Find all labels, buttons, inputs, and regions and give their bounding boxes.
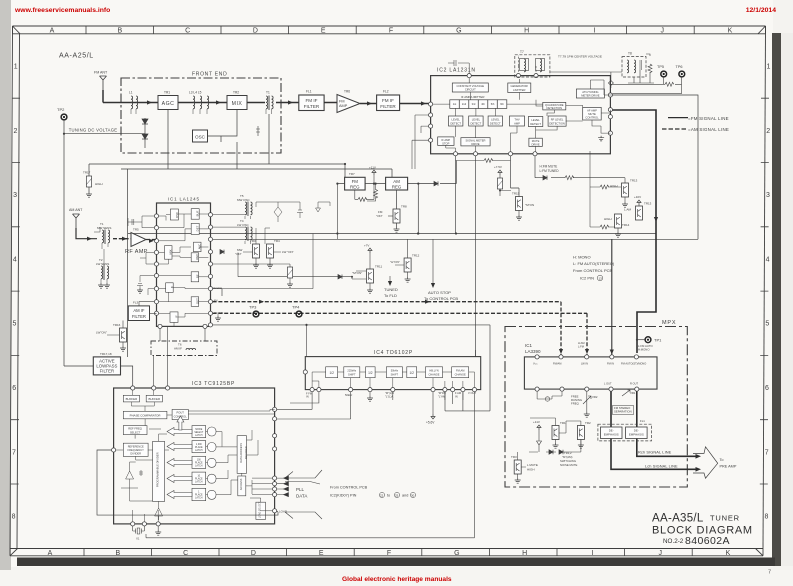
IC4 body — [305, 357, 480, 390]
svg-text:FM: FM — [339, 100, 344, 104]
if amp 6-stage row — [450, 100, 507, 109]
svg-text:2: 2 — [766, 128, 770, 135]
svg-text:PLACE: PLACE — [195, 494, 203, 497]
svg-text:REFERENCE: REFERENCE — [128, 445, 144, 449]
wire loop around left-bottom — [97, 450, 278, 515]
svg-text:AGC: AGC — [162, 101, 175, 107]
IC1 right pins — [208, 213, 212, 327]
svg-text:LEVEL: LEVEL — [531, 118, 540, 122]
IC3 bottom pins — [131, 522, 161, 526]
IC1 inner block alc — [194, 242, 202, 252]
transistor TR3 — [235, 239, 260, 268]
svg-text:L:FM TUNED: L:FM TUNED — [540, 169, 560, 173]
svg-text:TR6: TR6 — [344, 90, 350, 94]
wire T7-T8 rail to quadrature — [610, 72, 612, 88]
svg-text:HIGH: HIGH — [527, 468, 535, 472]
svg-text:225kHz: 225kHz — [347, 369, 356, 373]
svg-text:I: I — [593, 28, 595, 35]
svg-text:TUNED: TUNED — [384, 287, 398, 292]
auto stop label — [424, 239, 458, 301]
svg-text:DET: DET — [196, 225, 200, 231]
svg-text:H:AM: H:AM — [578, 341, 584, 345]
svg-text:TP2: TP2 — [57, 107, 65, 112]
svg-text:ALC: ALC — [198, 244, 202, 249]
svg-text:REG: REG — [392, 184, 402, 189]
IC4 1/2 block b — [366, 367, 376, 378]
svg-text:T7,T8 1PM CENTER VOLTAGE: T7,T8 1PM CENTER VOLTAGE — [558, 55, 602, 59]
coil L1 — [129, 91, 138, 115]
svg-text:RF: RF — [196, 274, 200, 278]
svg-text:1/2: 1/2 — [368, 371, 373, 375]
svg-text:LEVEL: LEVEL — [491, 118, 500, 122]
svg-text:IC2(KID07) PIN: IC2(KID07) PIN — [330, 494, 357, 498]
junction dots — [344, 163, 457, 235]
right scan shadow bar — [772, 33, 781, 566]
svg-text:FM ANT: FM ANT — [94, 71, 108, 75]
right grid numbers — [764, 64, 770, 521]
T6 AM IF dashed box — [151, 326, 217, 355]
wire IC4 drops — [146, 392, 475, 538]
LA3390 bottom pins — [535, 387, 639, 391]
svg-text:"ON": "ON" — [376, 214, 383, 218]
IC1 inner block if2 — [170, 312, 179, 323]
ref freq select block — [123, 426, 147, 435]
MPX dash-dot box — [505, 327, 687, 488]
svg-text:TR17,18: TR17,18 — [100, 352, 112, 356]
svg-text:R OUT: R OUT — [630, 382, 638, 386]
svg-text:50kHz: 50kHz — [345, 393, 353, 397]
transistor TR4 — [267, 239, 294, 268]
svg-text:DET: DET — [196, 298, 200, 304]
wire +B bus 164 — [89, 164, 345, 177]
transistor TR2 mute — [559, 421, 591, 448]
svg-text:F: F — [387, 550, 391, 557]
svg-text:PRE AMP: PRE AMP — [720, 465, 737, 469]
H:FM MUTE note — [540, 165, 560, 174]
TP4 test point — [292, 305, 302, 317]
svg-text:5: 5 — [765, 321, 769, 328]
svg-text:CONSTANT VOLTAGE: CONSTANT VOLTAGE — [457, 84, 485, 88]
wire rf amp out dashed — [146, 239, 157, 243]
svg-text:1/2: 1/2 — [409, 371, 414, 375]
svg-text:FM,AM: FM,AM — [456, 369, 464, 373]
To PRE AMP arrow — [693, 447, 737, 478]
svg-text:REG: REG — [350, 184, 360, 189]
wire thick FM line to MPX — [613, 110, 657, 353]
wire regs — [337, 161, 456, 234]
svg-text:FL1: FL1 — [306, 90, 312, 94]
svg-text:+11V: +11V — [369, 166, 376, 170]
svg-text:TR1: TR1 — [560, 421, 566, 425]
svg-text:2: 2 — [13, 128, 17, 135]
wire pll pin stubs — [277, 476, 289, 497]
latch rounded pairs — [208, 427, 217, 499]
PLL data arrow upper — [285, 470, 322, 484]
wire bus 239 — [211, 238, 699, 240]
svg-text:SEPARATION: SEPARATION — [614, 410, 632, 414]
svg-text:LW"ON": LW"ON" — [96, 331, 107, 335]
resistor on TP rail — [665, 82, 674, 86]
wire into IC2 — [400, 103, 429, 105]
coils L3 L4 L5 — [189, 91, 209, 115]
wire agc/mix down to bus — [168, 110, 269, 170]
wire filter to pins — [139, 302, 157, 314]
IC2 top pins — [467, 74, 538, 78]
TP1 test point — [636, 337, 662, 343]
svg-text:LEVEL: LEVEL — [452, 118, 461, 122]
wire am dashed out pin — [213, 300, 564, 355]
svg-text:LATCH: LATCH — [195, 480, 203, 483]
+11V muting feed — [529, 420, 581, 454]
svg-text:DETECT: DETECT — [530, 122, 541, 126]
level detect block 3 — [488, 116, 502, 126]
svg-text:HIGH: HIGH — [604, 217, 612, 221]
TP5 test point — [657, 65, 667, 77]
cap T3? stub — [256, 126, 260, 136]
svg-text:X1: X1 — [136, 537, 140, 541]
svg-text:PLACE: PLACE — [195, 446, 203, 449]
100 place latch — [192, 456, 206, 468]
svg-text:AMP: AMP — [339, 104, 348, 108]
svg-text:G: G — [454, 550, 459, 557]
svg-text:PLACE: PLACE — [195, 462, 203, 465]
IC4 1/2 block c — [407, 367, 417, 378]
svg-text:5: 5 — [13, 321, 17, 328]
de-emphasis block R — [626, 427, 648, 439]
IC1 inner block agc — [191, 253, 199, 262]
svg-text:FILTER: FILTER — [380, 104, 396, 109]
svg-text:L1: L1 — [129, 91, 133, 95]
wire pin1 stub — [537, 391, 562, 399]
wire quadrature coil link dashed — [517, 55, 519, 66]
drawing frame: left band — [10, 26, 20, 549]
transistor TR3 mute — [511, 452, 538, 483]
ground under IC4 — [367, 392, 373, 402]
tuned to fld label — [384, 276, 398, 298]
svg-text:IF AMP: IF AMP — [441, 138, 450, 142]
svg-text:OSC: OSC — [195, 135, 206, 140]
svg-text:"ON": "ON" — [235, 252, 242, 256]
address latch block — [238, 476, 246, 496]
junction at IC4 top feed — [305, 324, 307, 326]
IC4 HB LYN change block — [426, 367, 443, 378]
svg-text:SELECT: SELECT — [194, 432, 204, 434]
svg-text:TR12: TR12 — [412, 254, 420, 258]
wire FM ant down — [102, 90, 104, 103]
drawing frame: top band — [13, 26, 766, 34]
svg-text:TR7: TR7 — [349, 172, 355, 176]
svg-text:MIX: MIX — [169, 249, 173, 254]
svg-text:LW "ON": LW "ON" — [282, 250, 294, 254]
svg-text:LATCH: LATCH — [195, 497, 203, 500]
svg-text:13: 13 — [599, 277, 603, 281]
svg-text:CIRCUIT: CIRCUIT — [465, 88, 476, 92]
svg-text:IF: IF — [170, 285, 174, 288]
wire pin264 right resistors — [213, 264, 293, 287]
IC2 right pins — [608, 93, 612, 135]
svg-text:IF VCC: IF VCC — [214, 286, 223, 290]
resistor under FM REG — [355, 184, 374, 202]
svg-text:NOISE MUTE: NOISE MUTE — [560, 463, 578, 467]
svg-text:L MUTE: L MUTE — [527, 463, 538, 467]
IC1 inner block det — [191, 223, 199, 234]
wire IC1 to IC3 pin — [167, 326, 169, 386]
wire reg left vertical — [336, 184, 338, 240]
svg-text:1st: 1st — [453, 102, 457, 106]
IC3 top pins — [131, 386, 170, 390]
svg-text:H: H — [524, 28, 529, 35]
svg-text:L: FM AUTO(STEREO): L: FM AUTO(STEREO) — [573, 261, 615, 266]
reference frequency divider block — [123, 443, 148, 456]
wire tuning dc — [64, 120, 145, 366]
svg-text:TR15: TR15 — [512, 192, 520, 196]
svg-text:HB,LYN: HB,LYN — [429, 369, 438, 373]
svg-text:FM/AM: FM/AM — [553, 362, 561, 366]
+11V supply — [369, 166, 376, 184]
svg-text:+7.5V: +7.5V — [494, 165, 502, 169]
svg-text:"M"ON: "M"ON — [525, 203, 534, 207]
AM REG block — [386, 177, 408, 190]
svg-text:TR3: TR3 — [511, 455, 517, 459]
svg-text:LOAD SELECT: LOAD SELECT — [259, 501, 262, 518]
svg-text:Global electronic heritage man: Global electronic heritage manuals — [342, 576, 452, 583]
pout control block — [172, 409, 188, 419]
svg-text:FM: FM — [352, 179, 359, 184]
svg-text:H:MONO: H:MONO — [638, 348, 650, 352]
FL1 de-emphasis dashed box — [598, 419, 652, 441]
svg-text:IN: IN — [455, 395, 458, 399]
svg-text:DRIVE: DRIVE — [471, 142, 479, 146]
wire pin276 right — [213, 234, 313, 289]
pin note above — [578, 341, 584, 349]
transistor TR14 — [604, 214, 630, 237]
svg-text:H:FM MUTE: H:FM MUTE — [540, 165, 558, 169]
svg-text:TUNER: TUNER — [710, 514, 740, 523]
svg-text:L OUT: L OUT — [604, 382, 612, 386]
svg-text:RF LEVEL: RF LEVEL — [551, 118, 564, 122]
svg-text:CONTROL: CONTROL — [585, 116, 599, 120]
svg-text:C: C — [183, 550, 188, 557]
svg-text:SHIFT: SHIFT — [391, 372, 399, 376]
wire FM IN drop — [610, 239, 614, 355]
svg-text:AUTO STOP: AUTO STOP — [428, 290, 451, 295]
svg-text:IN: IN — [306, 395, 309, 399]
svg-text:SHIFT: SHIFT — [348, 372, 356, 376]
PLL data arrow lower — [285, 512, 322, 519]
wire bus 233 — [128, 233, 656, 235]
programmable divider block — [153, 441, 165, 501]
svg-text:ADDRESS: ADDRESS — [240, 478, 243, 490]
TP2 test point — [57, 107, 67, 120]
free runing freq — [571, 391, 598, 417]
svg-text:T1: T1 — [266, 91, 270, 95]
svg-text:AGC: AGC — [195, 254, 199, 260]
FM AMP triangle TR6 — [337, 90, 360, 113]
svg-text:TR13: TR13 — [630, 179, 638, 183]
IC4 225kHz shift block — [344, 367, 360, 378]
svg-text:To: To — [720, 458, 724, 462]
wire osc to mix — [208, 110, 238, 143]
T4 LW OSC — [213, 219, 253, 244]
svg-text:VR1: VR1 — [630, 391, 636, 395]
wire IC2 to IC4 drop — [475, 350, 477, 357]
drawing frame: right band — [763, 26, 766, 549]
TR1,2 note — [560, 451, 578, 467]
svg-text:AA-A25/L: AA-A25/L — [59, 53, 94, 60]
svg-text:TR4: TR4 — [274, 239, 280, 243]
IC1 bottom corner pins — [158, 324, 207, 328]
svg-text:TR13: TR13 — [644, 202, 652, 206]
svg-text:1/2: 1/2 — [329, 371, 334, 375]
svg-text:1: 1 — [14, 64, 18, 71]
ground at IC1 left pin network — [137, 288, 143, 293]
PLL DATA label — [296, 487, 307, 499]
wire dashed TP3 TP4 line — [213, 313, 590, 355]
svg-text:=AM SIGNAL LINE: =AM SIGNAL LINE — [688, 127, 729, 132]
svg-text:C: C — [185, 28, 190, 35]
transistor TR15 — [512, 192, 534, 221]
svg-text:+7V: +7V — [364, 244, 369, 248]
svg-text:FL2: FL2 — [383, 90, 389, 94]
IC2 bottom pins — [453, 152, 537, 156]
svg-text:FM IF: FM IF — [382, 98, 394, 103]
T1 MW SENS transformer — [94, 222, 111, 249]
capacitor near reg — [367, 184, 378, 201]
transistor TR16 — [96, 321, 127, 352]
T5 MW OSC — [213, 194, 253, 219]
svg-text:FL1: FL1 — [640, 419, 645, 423]
ground pin3 — [155, 526, 161, 535]
svg-text:4: 4 — [766, 256, 770, 263]
svg-text:A: A — [50, 28, 55, 35]
svg-text:From CONTROL PCB: From CONTROL PCB — [330, 486, 368, 490]
svg-text:GENERATOR/: GENERATOR/ — [511, 84, 529, 88]
transistor TR10 — [624, 195, 652, 220]
svg-text:PHASE COMPARATOR: PHASE COMPARATOR — [130, 413, 161, 417]
svg-text:TR5: TR5 — [133, 228, 139, 232]
left grid numbers — [12, 64, 18, 521]
+5.6V under IC4 — [426, 392, 435, 425]
thv amp block — [510, 116, 525, 126]
svg-text:B: B — [117, 28, 122, 35]
svg-text:POUT: POUT — [176, 411, 184, 415]
svg-text:MW OSC: MW OSC — [237, 198, 250, 202]
svg-text:TR17: TR17 — [83, 171, 91, 175]
svg-text:CHANGE: CHANGE — [455, 372, 466, 376]
svg-text:7: 7 — [12, 449, 16, 456]
svg-text:DETECTION: DETECTION — [547, 106, 563, 110]
RF AMP triangle TR5 — [125, 228, 148, 256]
svg-text:TR2: TR2 — [585, 421, 591, 425]
svg-text:TP3: TP3 — [249, 305, 257, 310]
svg-text:LIMITTER: LIMITTER — [513, 88, 525, 92]
IC3 body — [114, 388, 275, 524]
svg-text:TP6: TP6 — [676, 65, 683, 69]
svg-text:50kHz: 50kHz — [391, 369, 399, 373]
svg-text:LEVEL: LEVEL — [472, 118, 481, 122]
svg-text:Lch SIGNAL LINE: Lch SIGNAL LINE — [645, 463, 678, 468]
drawing frame: bottom band — [10, 549, 763, 556]
svg-text:6: 6 — [765, 385, 769, 392]
right grid ticks — [760, 98, 769, 484]
svg-text:25: 25 — [395, 494, 399, 498]
+7V supply TR11 — [352, 244, 382, 294]
if amp stop block — [438, 137, 454, 146]
svg-text:E: E — [319, 550, 324, 557]
IC4 50kHz shift block — [386, 367, 402, 378]
wire alpf input — [64, 365, 93, 367]
svg-text:T7: T7 — [520, 50, 524, 54]
FM signal line legend — [668, 116, 729, 121]
svg-text:REF FREQ: REF FREQ — [128, 427, 142, 431]
svg-text:AM: AM — [214, 299, 218, 303]
svg-text:DIVIDER: DIVIDER — [130, 451, 141, 455]
wire to RF amp dashed — [87, 237, 131, 241]
wire resistor to TR13 — [590, 185, 621, 189]
svg-text:IF AMP/LIMITTER: IF AMP/LIMITTER — [461, 95, 484, 99]
svg-text:K: K — [726, 550, 731, 557]
IC1 body — [157, 203, 211, 326]
AGC block TR1 — [158, 91, 178, 110]
svg-text:FM IF: FM IF — [306, 98, 318, 103]
svg-text:5th: 5th — [491, 102, 495, 106]
ground inside IC2 — [598, 136, 604, 141]
svg-text:6th: 6th — [500, 102, 504, 106]
TP1 note — [638, 344, 654, 352]
svg-text:7: 7 — [768, 570, 771, 576]
signal meter drive block — [461, 138, 490, 146]
svg-text:CHANGE: CHANGE — [428, 372, 439, 376]
svg-text:3: 3 — [13, 192, 17, 199]
buffer block 2 — [146, 395, 162, 402]
svg-text:FL3: FL3 — [133, 301, 139, 305]
arrowheads on signal lines — [696, 454, 702, 472]
svg-text:AF GND: AF GND — [214, 311, 224, 315]
svg-text:TP4: TP4 — [292, 305, 300, 310]
wire R OUT drop — [637, 391, 697, 456]
bottom grid ticks — [84, 549, 692, 557]
svg-text:FM IN: FM IN — [607, 362, 614, 366]
svg-text:PROGRAMMABLE DIVIDER: PROGRAMMABLE DIVIDER — [156, 452, 160, 487]
IC4 bottom pins — [310, 388, 477, 392]
svg-text:840602A: 840602A — [685, 535, 730, 547]
wire vertical feed — [127, 169, 129, 357]
svg-text:MUTE: MUTE — [588, 112, 596, 116]
FM REG block TR7 — [345, 172, 366, 190]
IC1 LA3390 body — [524, 357, 657, 389]
IC3 internal wires — [116, 390, 275, 522]
svg-text:T8: T8 — [628, 52, 632, 56]
svg-text:1: 1 — [767, 64, 771, 71]
svg-text:TR16: TR16 — [113, 323, 121, 327]
transistor TR13 — [610, 179, 638, 208]
load select block — [256, 501, 266, 519]
svg-text:SELECT: SELECT — [130, 430, 141, 434]
from control pcb note — [330, 486, 416, 498]
svg-text:F: F — [389, 28, 393, 35]
left pin passives — [128, 216, 154, 295]
IC1 right pin labels — [214, 286, 224, 315]
front end dash-dot box — [121, 78, 281, 153]
wire bus 169 — [121, 169, 392, 177]
left grid ticks — [11, 98, 20, 484]
wire TP5 TP6 to rail — [611, 77, 682, 94]
svg-text:LA3390: LA3390 — [525, 349, 541, 354]
svg-text:FM AUTO(ST)/MONO: FM AUTO(ST)/MONO — [621, 362, 646, 366]
svg-text:PLL: PLL — [296, 487, 305, 492]
10 place latch — [192, 472, 206, 484]
svg-text:STOP: STOP — [442, 141, 449, 145]
